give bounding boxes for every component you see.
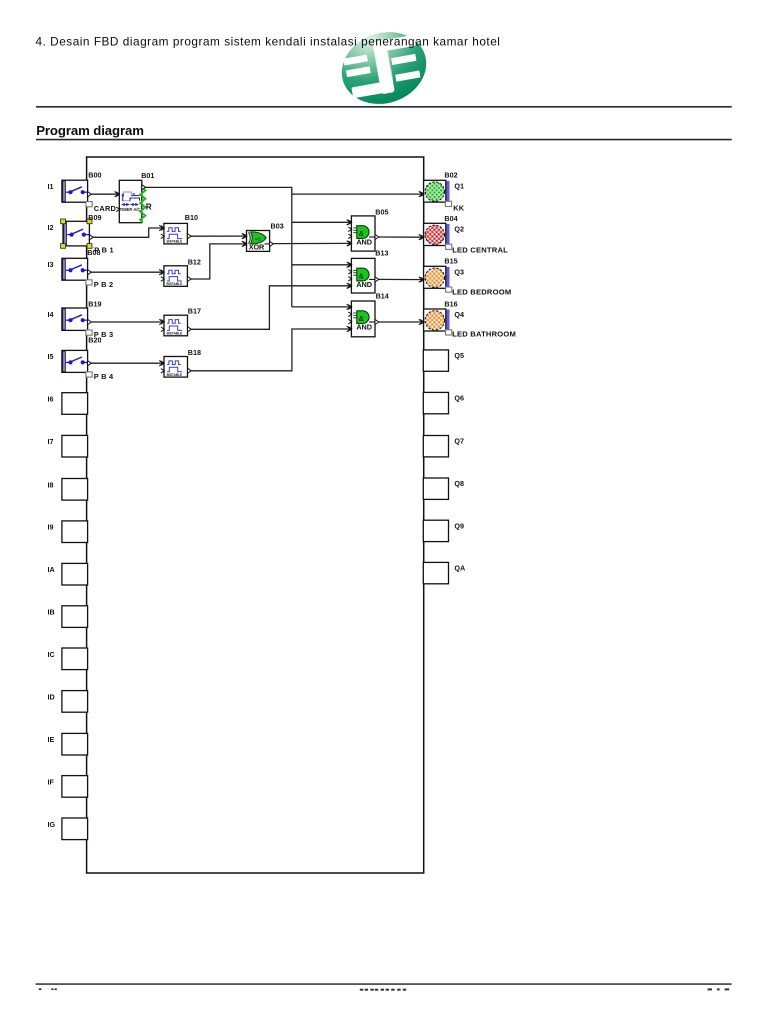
svg-text:B09: B09 bbox=[88, 213, 101, 222]
svg-text:IB: IB bbox=[48, 608, 55, 617]
svg-text:Q6: Q6 bbox=[454, 394, 464, 403]
svg-text:B02: B02 bbox=[444, 171, 457, 180]
svg-text:R: R bbox=[146, 202, 152, 211]
svg-text:CARD: CARD bbox=[94, 204, 117, 213]
svg-text:=1: =1 bbox=[255, 236, 261, 242]
svg-text:I1: I1 bbox=[48, 182, 54, 191]
svg-text:4. Desain FBD diagram program: 4. Desain FBD diagram program sistem ken… bbox=[36, 35, 501, 49]
svg-text:B03: B03 bbox=[271, 222, 284, 231]
svg-text:LED BEDROOM: LED BEDROOM bbox=[452, 287, 511, 296]
svg-text:B16: B16 bbox=[444, 299, 457, 308]
svg-text:B00: B00 bbox=[88, 171, 101, 180]
svg-text:IE: IE bbox=[48, 735, 55, 744]
svg-text:LED CENTRAL: LED CENTRAL bbox=[452, 245, 508, 254]
svg-text:B18: B18 bbox=[188, 348, 201, 357]
svg-text:I8: I8 bbox=[48, 480, 54, 489]
svg-text:B19: B19 bbox=[88, 299, 101, 308]
svg-text:I4: I4 bbox=[48, 310, 54, 319]
svg-text:XOR: XOR bbox=[249, 243, 265, 252]
svg-text:Q8: Q8 bbox=[454, 479, 464, 488]
svg-text:P B 2: P B 2 bbox=[94, 280, 114, 289]
svg-text:AND: AND bbox=[356, 322, 372, 331]
svg-text:B15: B15 bbox=[444, 257, 457, 266]
svg-text:Q1: Q1 bbox=[454, 182, 464, 191]
svg-text:AND: AND bbox=[356, 237, 372, 246]
svg-text:IA: IA bbox=[48, 565, 55, 574]
svg-text:I3: I3 bbox=[48, 260, 54, 269]
svg-text:Q9: Q9 bbox=[454, 521, 464, 530]
svg-text:B04: B04 bbox=[444, 214, 457, 223]
svg-text:BISTABLE: BISTABLE bbox=[167, 240, 183, 244]
svg-text:ID: ID bbox=[48, 692, 55, 701]
svg-text:I2: I2 bbox=[48, 223, 54, 232]
svg-text:Q5: Q5 bbox=[454, 351, 464, 360]
svg-text:P B 1: P B 1 bbox=[94, 245, 114, 254]
svg-text:BISTABLE: BISTABLE bbox=[167, 282, 183, 286]
svg-text:P B 4: P B 4 bbox=[94, 372, 114, 381]
svg-text:I6: I6 bbox=[48, 395, 54, 404]
svg-text:I7: I7 bbox=[48, 437, 54, 446]
svg-text:Q2: Q2 bbox=[454, 225, 464, 234]
svg-text:Q4: Q4 bbox=[454, 310, 464, 319]
svg-text:B05: B05 bbox=[375, 207, 388, 216]
svg-text:B12: B12 bbox=[188, 258, 201, 267]
svg-text:AND: AND bbox=[356, 280, 372, 289]
svg-text:LED BATHROOM: LED BATHROOM bbox=[452, 330, 516, 339]
svg-text:B14: B14 bbox=[376, 292, 389, 301]
svg-text:B17: B17 bbox=[188, 306, 201, 315]
svg-text:BISTABLE: BISTABLE bbox=[167, 332, 183, 336]
svg-text:IF: IF bbox=[48, 777, 55, 786]
svg-text:QA: QA bbox=[454, 564, 465, 573]
svg-text:Program diagram: Program diagram bbox=[36, 123, 144, 138]
svg-text:B13: B13 bbox=[375, 249, 388, 258]
svg-text:I9: I9 bbox=[48, 523, 54, 532]
svg-text:I5: I5 bbox=[48, 352, 54, 361]
svg-text:Q3: Q3 bbox=[454, 268, 464, 277]
svg-text:IG: IG bbox=[48, 820, 56, 829]
svg-text:Q7: Q7 bbox=[454, 437, 464, 446]
svg-text:KK: KK bbox=[453, 203, 465, 212]
svg-text:TIMER A/C: TIMER A/C bbox=[120, 207, 141, 212]
svg-text:BISTABLE: BISTABLE bbox=[167, 373, 183, 377]
svg-text:P B 3: P B 3 bbox=[94, 330, 114, 339]
svg-text:B01: B01 bbox=[141, 171, 154, 180]
svg-text:B10: B10 bbox=[185, 213, 198, 222]
svg-text:IC: IC bbox=[48, 650, 55, 659]
